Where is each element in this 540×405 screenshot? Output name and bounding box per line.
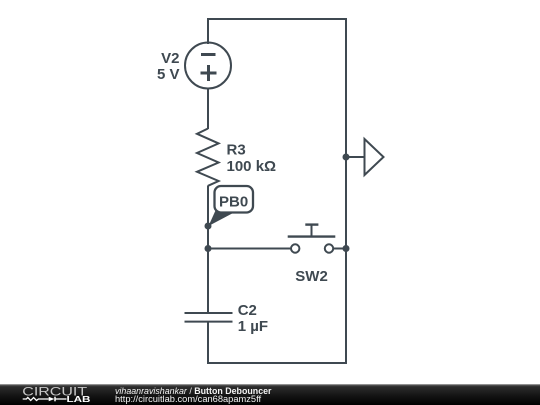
svg-text:SW2: SW2 — [295, 268, 328, 285]
svg-text:http://circuitlab.com/can68apa: http://circuitlab.com/can68apamz5ff — [115, 394, 261, 404]
switch SW2 — [288, 225, 336, 253]
junction dot on right rail at SW2 — [343, 245, 350, 252]
wire: R3 to node PB0 — [207, 186, 209, 227]
wire: bottom horizontal rail — [207, 362, 347, 364]
wire: V2 bottom terminal to resistor R3 — [207, 88, 209, 129]
svg-text:C2: C2 — [238, 302, 257, 319]
wire: right vertical rail — [345, 18, 347, 363]
net flag PB0 box — [215, 186, 254, 213]
wire: V2 top terminal up to top rail — [207, 19, 209, 44]
svg-text:1 µF: 1 µF — [238, 318, 268, 335]
net flag PB0 pointer — [209, 211, 235, 227]
resistor R3 — [197, 129, 219, 186]
svg-text:R3: R3 — [227, 142, 246, 159]
junction dot at SW2/C2 branch — [205, 245, 212, 252]
wire: SW2 right contact to right rail — [333, 248, 346, 250]
svg-text:5 V: 5 V — [157, 66, 180, 83]
CircuitLab logo squiggle: wire, resistor, diode — [23, 397, 67, 402]
svg-text:PB0: PB0 — [219, 194, 248, 211]
wire: C2 to bottom rail — [207, 322, 209, 363]
capacitor C2 — [185, 313, 233, 322]
wire: junction to SW2 left contact — [208, 248, 291, 250]
wire: PB0 node down to junction — [207, 226, 209, 249]
wire: top horizontal rail — [207, 18, 346, 20]
junction dot at node PB0 — [205, 223, 212, 230]
wire: junction down to capacitor C2 — [207, 249, 209, 314]
footer bar — [0, 384, 540, 405]
wire: probe stub — [346, 156, 365, 158]
svg-text:V2: V2 — [161, 50, 179, 67]
svg-text:100 kΩ: 100 kΩ — [227, 158, 277, 175]
svg-text:LAB: LAB — [67, 395, 91, 404]
probe output triangle — [365, 139, 384, 175]
voltage source V2 — [185, 43, 231, 89]
junction dot on right rail at probe — [343, 154, 350, 161]
